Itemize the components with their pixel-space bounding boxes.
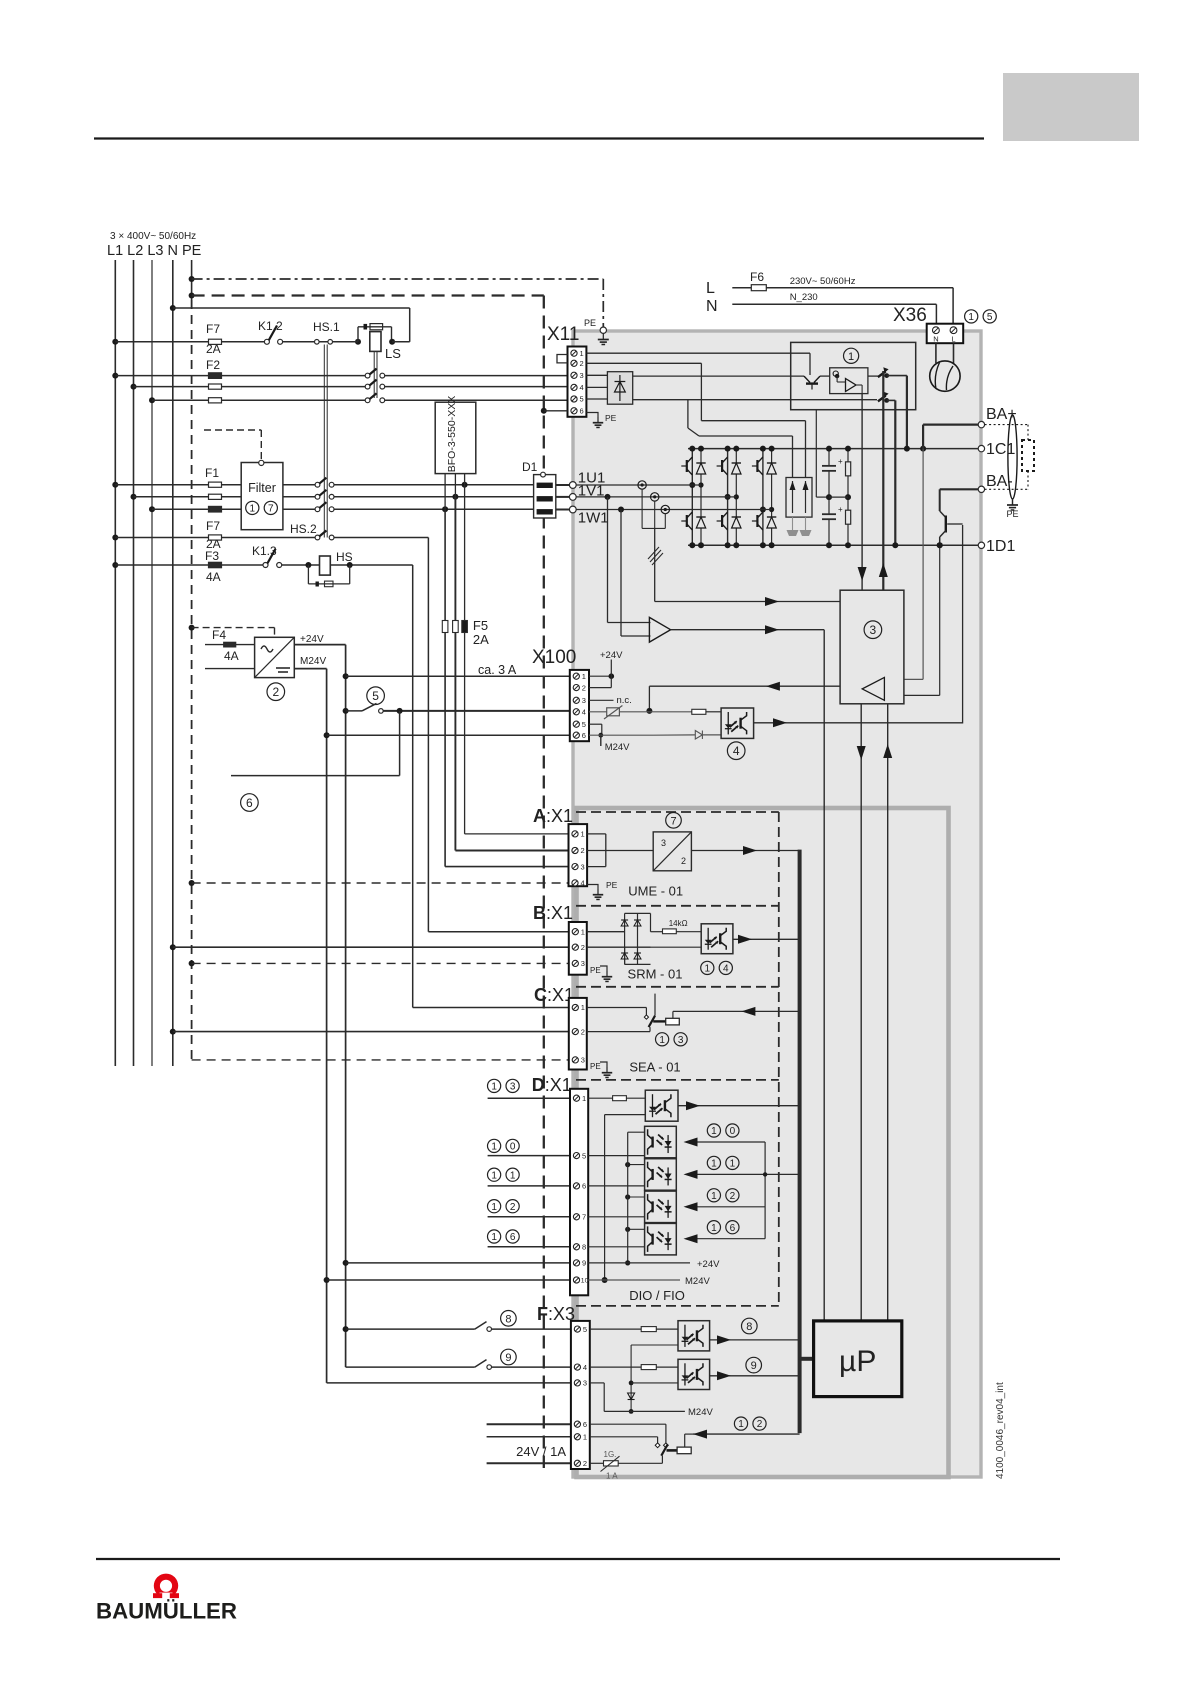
svg-text:0: 0 bbox=[730, 1126, 736, 1137]
HS element bbox=[320, 556, 331, 575]
svg-text:4A: 4A bbox=[206, 570, 221, 584]
svg-text:1: 1 bbox=[491, 1142, 497, 1153]
svg-text:1: 1 bbox=[491, 1232, 497, 1243]
power supply unit (1) box bbox=[791, 342, 916, 409]
svg-text:8: 8 bbox=[505, 1313, 511, 1325]
svg-text:5: 5 bbox=[580, 395, 584, 404]
svg-text:L: L bbox=[706, 280, 715, 297]
fuse bbox=[209, 506, 222, 512]
contactor control link bbox=[882, 371, 884, 590]
main contactor 3-pole switch bbox=[365, 373, 370, 378]
header gray box bbox=[1003, 73, 1139, 141]
svg-text:5: 5 bbox=[372, 689, 379, 703]
svg-text:2: 2 bbox=[757, 1419, 763, 1430]
SRM optocoupler bbox=[701, 924, 733, 954]
N line bbox=[172, 260, 174, 1066]
K1.2 fan supply row bbox=[112, 339, 118, 345]
Filter box bbox=[241, 463, 283, 530]
svg-text:2: 2 bbox=[582, 683, 586, 692]
svg-text:7: 7 bbox=[582, 1213, 586, 1222]
1D1 terminal bbox=[978, 542, 984, 548]
relay contact bottom right bbox=[590, 1423, 666, 1425]
svg-text:8: 8 bbox=[582, 1243, 586, 1252]
IGBT leg 1 bbox=[691, 449, 693, 546]
LS thermal bypass loop bbox=[357, 327, 359, 342]
svg-text:1 A: 1 A bbox=[606, 1472, 618, 1481]
PE branch to power unit PE bbox=[189, 276, 195, 282]
M24V row to X100 pin6 bbox=[324, 732, 330, 738]
module boundary dashed bbox=[576, 811, 779, 813]
row into B:X1 pin1 bbox=[428, 931, 568, 933]
svg-text:3: 3 bbox=[870, 623, 877, 637]
svg-text:PE: PE bbox=[590, 966, 601, 975]
svg-text:ca. 3 A: ca. 3 A bbox=[478, 663, 517, 677]
svg-text:X36: X36 bbox=[893, 305, 927, 326]
X11 pin6 PE bbox=[586, 413, 598, 418]
fuse row3 bbox=[209, 398, 222, 403]
branch to snubber bbox=[687, 400, 689, 428]
F:X3 bbox=[571, 1321, 590, 1469]
PE dashed to PSU bbox=[189, 625, 195, 631]
svg-text:7: 7 bbox=[268, 504, 274, 515]
svg-text:5: 5 bbox=[582, 720, 586, 729]
svg-text:9: 9 bbox=[582, 1259, 586, 1268]
gate feedback line with hash bbox=[654, 528, 656, 601]
fuse F6 bbox=[751, 285, 766, 291]
svg-text:n.c.: n.c. bbox=[617, 695, 632, 706]
svg-text:3: 3 bbox=[678, 1035, 684, 1046]
L2 line bbox=[133, 260, 135, 1066]
svg-text:4: 4 bbox=[723, 964, 729, 975]
DIO out resistor bbox=[588, 1097, 612, 1099]
fuse F3 4A bbox=[209, 562, 222, 567]
svg-text:F7: F7 bbox=[206, 519, 220, 533]
switch (8) row to F:X3 pin5 bbox=[343, 1326, 349, 1332]
svg-text:1: 1 bbox=[580, 349, 584, 358]
svg-text:230V~ 50/60Hz: 230V~ 50/60Hz bbox=[790, 276, 856, 287]
svg-text:8: 8 bbox=[746, 1321, 752, 1333]
X100 bbox=[570, 670, 589, 741]
svg-text:2: 2 bbox=[730, 1191, 736, 1202]
signal bus bbox=[798, 850, 802, 1434]
svg-text:M24V: M24V bbox=[300, 656, 326, 667]
PE dashed line bbox=[191, 300, 193, 1062]
X100 pin1 +24V row bbox=[343, 673, 349, 679]
svg-text:PE: PE bbox=[1006, 509, 1018, 519]
DC feedback to (3) bbox=[922, 449, 924, 680]
svg-text:1D1: 1D1 bbox=[986, 538, 1015, 555]
svg-text:HS: HS bbox=[336, 550, 353, 564]
C:X1 bbox=[569, 998, 587, 1070]
vertical to C:X1 pin1 bbox=[412, 565, 414, 1008]
svg-text:HS.1: HS.1 bbox=[313, 320, 340, 334]
svg-text:1: 1 bbox=[491, 1202, 497, 1213]
filter output rows bbox=[283, 484, 318, 486]
fuse row2 bbox=[209, 384, 222, 389]
PE line solid top bbox=[191, 260, 193, 300]
control block (3) bbox=[840, 590, 904, 704]
switch (9) row to F:X3 pin4 bbox=[501, 1349, 517, 1365]
IGBT leg 3 bbox=[762, 449, 764, 546]
svg-text:BFO-3-550-XXX: BFO-3-550-XXX bbox=[446, 396, 458, 472]
svg-text:Filter: Filter bbox=[248, 481, 276, 495]
X11 bbox=[568, 347, 587, 417]
svg-text:+: + bbox=[838, 457, 843, 466]
svg-text:1: 1 bbox=[730, 1159, 736, 1170]
fuse F7 2A bbox=[209, 535, 222, 540]
header rule bbox=[94, 137, 984, 139]
brake chopper transistor bbox=[939, 489, 941, 511]
fuse F7 2A bbox=[209, 339, 222, 344]
M24V row to D:X1 pin10 bbox=[324, 1277, 330, 1283]
current signal to uP bbox=[823, 630, 825, 1321]
vertical to B:X1 pin1 bbox=[427, 538, 429, 932]
PE dashed row to C:X1 pin3 bbox=[192, 1059, 569, 1061]
battery cable shield ellipse bbox=[1008, 415, 1017, 499]
svg-text:4: 4 bbox=[582, 708, 586, 717]
X11 pin1 row to power supply bbox=[586, 352, 810, 354]
comparator triangle bbox=[649, 617, 670, 642]
X11 pin6 to shield bbox=[541, 408, 547, 414]
X100 n.c. bbox=[589, 699, 614, 701]
filter-side 3-pole switch bbox=[315, 482, 320, 487]
+24V / M24V labels bbox=[588, 1262, 690, 1264]
svg-text:1: 1 bbox=[968, 312, 974, 323]
svg-text:F:X3: F:X3 bbox=[537, 1304, 575, 1324]
svg-text:1W1: 1W1 bbox=[578, 510, 609, 527]
svg-text:1: 1 bbox=[510, 1170, 516, 1181]
fuse F1 bbox=[209, 482, 222, 487]
SRM bridge rectifier bbox=[587, 931, 625, 933]
svg-text:6: 6 bbox=[730, 1223, 736, 1234]
svg-text:+: + bbox=[838, 505, 843, 514]
svg-text:M24V: M24V bbox=[685, 1276, 710, 1287]
svg-text:L: L bbox=[951, 335, 955, 344]
svg-text:N: N bbox=[933, 335, 938, 344]
half DC bus sense line bbox=[815, 410, 817, 497]
diode to opto bbox=[695, 731, 702, 740]
svg-text:4A: 4A bbox=[224, 649, 239, 663]
microprocessor bbox=[814, 1321, 902, 1397]
svg-text:D1: D1 bbox=[522, 460, 538, 474]
svg-text:0: 0 bbox=[510, 1142, 516, 1153]
svg-text:PE: PE bbox=[584, 318, 596, 328]
svg-text:1: 1 bbox=[250, 504, 256, 515]
svg-text:1: 1 bbox=[848, 351, 854, 363]
opto common bus bbox=[764, 1142, 766, 1239]
row into C:X1 pin1 bbox=[413, 1007, 569, 1009]
svg-text:1: 1 bbox=[711, 1223, 717, 1234]
svg-text:L1 L2 L3 N PE: L1 L2 L3 N PE bbox=[107, 243, 202, 259]
svg-text:SRM - 01: SRM - 01 bbox=[628, 967, 683, 982]
svg-text:PE: PE bbox=[590, 1062, 601, 1071]
rows into A:X1 bbox=[445, 866, 568, 868]
DC+ rail / 1C1 bbox=[688, 448, 979, 450]
L1 line bbox=[114, 260, 116, 1066]
customer line (6) bbox=[399, 711, 401, 776]
svg-text:1: 1 bbox=[711, 1126, 717, 1137]
DIO output opto bbox=[645, 1090, 678, 1121]
svg-text:1C1: 1C1 bbox=[986, 441, 1015, 458]
svg-text:D:X1: D:X1 bbox=[532, 1075, 572, 1095]
fuse F4 4A bbox=[224, 642, 236, 647]
PE dashed row to B:X1 pin3 bbox=[189, 960, 195, 966]
input opto 2 bbox=[645, 1159, 677, 1191]
svg-text:1: 1 bbox=[581, 1003, 585, 1012]
power supply unit (2) bbox=[255, 637, 295, 677]
DC- feed bbox=[894, 400, 896, 545]
svg-text:UME - 01: UME - 01 bbox=[628, 884, 683, 899]
svg-text:1: 1 bbox=[491, 1170, 497, 1181]
D:X1 bbox=[570, 1089, 588, 1296]
A:X1 bracket bbox=[587, 833, 606, 835]
svg-text:1G.: 1G. bbox=[604, 1450, 617, 1459]
svg-text:BAUMÜLLER: BAUMÜLLER bbox=[96, 1599, 237, 1624]
N row to B:X1 pin2 bbox=[170, 944, 176, 950]
svg-text:X11: X11 bbox=[547, 324, 579, 345]
DC link capacitors bbox=[828, 449, 830, 466]
footer rule bbox=[96, 1558, 1060, 1560]
opamp output down to (3) bbox=[861, 394, 863, 591]
(1)(2) control arrow bbox=[693, 1433, 800, 1435]
svg-text:+24V: +24V bbox=[600, 650, 623, 661]
optocoupler (4) bbox=[721, 708, 754, 738]
svg-text:3: 3 bbox=[581, 862, 585, 871]
1C1 terminal bbox=[978, 445, 984, 451]
PE dashed row to A:X1 pin4 bbox=[189, 880, 195, 886]
M24V row to F:X3 pin3 bbox=[327, 1382, 571, 1384]
rectifier output rows bbox=[633, 375, 804, 377]
svg-text:6: 6 bbox=[582, 1182, 586, 1191]
svg-text:SEA - 01: SEA - 01 bbox=[629, 1060, 680, 1075]
1G fuse bbox=[590, 1462, 604, 1464]
svg-text:7: 7 bbox=[670, 815, 676, 827]
HS bypass loop below bbox=[307, 565, 309, 584]
relay contact 2 bbox=[878, 396, 886, 402]
svg-text:2: 2 bbox=[580, 359, 584, 368]
svg-text:1: 1 bbox=[711, 1191, 717, 1202]
svg-text:3: 3 bbox=[510, 1082, 516, 1093]
X100 pin5-6 bracket bbox=[589, 723, 602, 725]
D:X1 input rows bbox=[488, 1079, 501, 1092]
release resistor bbox=[649, 711, 691, 713]
switch (5) row to X100 pin4 bbox=[343, 708, 349, 714]
svg-text:3: 3 bbox=[580, 371, 584, 380]
svg-text:F5: F5 bbox=[473, 618, 488, 633]
snubber block bbox=[786, 478, 812, 518]
line filter BFO-3-550-XXX bbox=[444, 474, 446, 510]
svg-text:M24V: M24V bbox=[688, 1407, 713, 1418]
svg-text:F6: F6 bbox=[750, 270, 764, 284]
input opto 3 bbox=[645, 1191, 677, 1223]
opto commons to M24V bbox=[631, 1344, 678, 1346]
DC+ feed bbox=[906, 376, 908, 449]
svg-text:2: 2 bbox=[581, 846, 585, 855]
fuse F2 bbox=[209, 373, 222, 379]
IGBT leg 2 bbox=[727, 449, 729, 546]
A:X1 bbox=[569, 824, 588, 886]
svg-text:2: 2 bbox=[272, 685, 279, 699]
svg-text:1: 1 bbox=[582, 1094, 586, 1103]
relay contact 1 bbox=[868, 375, 878, 377]
svg-text:2: 2 bbox=[581, 1027, 585, 1036]
svg-text:5: 5 bbox=[582, 1151, 586, 1160]
svg-text:6: 6 bbox=[582, 731, 586, 740]
svg-text:PE: PE bbox=[606, 880, 618, 890]
svg-text:6: 6 bbox=[510, 1232, 516, 1243]
svg-text:1: 1 bbox=[582, 672, 586, 681]
svg-text:2: 2 bbox=[510, 1202, 516, 1213]
B:X1 PE bbox=[586, 964, 588, 966]
HS.1-HS.2 mechanical link bbox=[323, 345, 325, 538]
svg-text:PE: PE bbox=[605, 413, 617, 423]
svg-text:4: 4 bbox=[733, 744, 740, 758]
svg-text:3: 3 bbox=[661, 838, 666, 848]
fuse bbox=[209, 494, 222, 499]
current sensors bbox=[638, 481, 646, 489]
LS element bbox=[370, 332, 381, 352]
controller inner gray box bbox=[577, 808, 949, 1477]
SEA switch bbox=[587, 1007, 647, 1009]
opto 8 bbox=[590, 1328, 641, 1330]
phase feedback to comparator bbox=[605, 494, 611, 500]
svg-text:3: 3 bbox=[583, 1379, 587, 1388]
(3) to uP lines bbox=[860, 704, 862, 1321]
svg-text:1: 1 bbox=[581, 830, 585, 839]
svg-text:6: 6 bbox=[246, 796, 253, 810]
svg-text:4: 4 bbox=[583, 1363, 587, 1372]
svg-text:1: 1 bbox=[583, 1433, 587, 1442]
svg-text:6: 6 bbox=[583, 1420, 587, 1429]
F:X3 pin6,1,2 stubs bbox=[487, 1423, 571, 1425]
svg-text:2A: 2A bbox=[206, 342, 221, 356]
gate line from opto (4) bbox=[962, 525, 964, 724]
X100 pin4 varistor bbox=[607, 708, 620, 716]
svg-text:4100_0046_rev04_int: 4100_0046_rev04_int bbox=[995, 1382, 1006, 1479]
pin3 to M24V bbox=[590, 1382, 604, 1384]
svg-text:1: 1 bbox=[738, 1419, 744, 1430]
opto (9) bbox=[678, 1359, 710, 1389]
svg-text:µP: µP bbox=[839, 1345, 876, 1378]
svg-text:9: 9 bbox=[505, 1352, 511, 1364]
svg-text:24V / 1A: 24V / 1A bbox=[516, 1444, 566, 1459]
release line from X100 pin4 bbox=[649, 685, 840, 687]
svg-text:K1.2: K1.2 bbox=[258, 319, 283, 333]
Baumueller logo omega bbox=[154, 1574, 178, 1598]
pass transistor bbox=[809, 353, 811, 375]
svg-text:5: 5 bbox=[583, 1325, 587, 1334]
F5 fused lines to A:X1 bbox=[444, 509, 446, 866]
svg-text:4: 4 bbox=[580, 383, 584, 392]
svg-text:F1: F1 bbox=[205, 466, 219, 480]
svg-text:3: 3 bbox=[582, 696, 586, 705]
svg-text:2A: 2A bbox=[473, 632, 489, 647]
N feed loop for fan contactor bbox=[170, 305, 176, 311]
U/f converter bbox=[666, 813, 682, 829]
svg-text:9: 9 bbox=[751, 1360, 757, 1372]
svg-text:F2: F2 bbox=[206, 358, 220, 372]
A:X1 PE bbox=[587, 885, 598, 890]
X11 pins1-2 bracket bbox=[557, 355, 568, 363]
svg-text:M24V: M24V bbox=[605, 742, 630, 753]
svg-text:HS.2: HS.2 bbox=[290, 522, 317, 536]
fan bbox=[935, 343, 937, 363]
aux rectifier bbox=[607, 372, 632, 405]
svg-text:14kΩ: 14kΩ bbox=[669, 919, 688, 928]
svg-text:4: 4 bbox=[581, 879, 585, 888]
input opto 4 bbox=[645, 1223, 677, 1255]
BA- terminal bbox=[940, 488, 979, 490]
+24V row to D:X1 pin9 bbox=[343, 1260, 349, 1266]
BA+ terminal bbox=[920, 446, 926, 452]
svg-text:2: 2 bbox=[681, 856, 686, 866]
svg-text:1: 1 bbox=[581, 927, 585, 936]
svg-text:F3: F3 bbox=[205, 549, 219, 563]
svg-text:F7: F7 bbox=[206, 322, 220, 336]
power unit gray enclosure bbox=[573, 331, 981, 1477]
svg-text:X100: X100 bbox=[532, 647, 576, 668]
svg-text:N_230: N_230 bbox=[790, 292, 818, 303]
L3 line bbox=[151, 260, 153, 1066]
svg-text:1: 1 bbox=[659, 1035, 665, 1046]
svg-text:LS: LS bbox=[385, 346, 401, 361]
svg-text:+24V: +24V bbox=[300, 634, 324, 645]
svg-text:6: 6 bbox=[580, 407, 584, 416]
svg-text:2: 2 bbox=[583, 1459, 587, 1468]
N row to C:X1 pin2 bbox=[170, 1029, 176, 1035]
svg-text:3: 3 bbox=[581, 1056, 585, 1065]
svg-text:5: 5 bbox=[987, 312, 993, 323]
svg-text:1: 1 bbox=[711, 1159, 717, 1170]
svg-text:N: N bbox=[706, 298, 718, 315]
enclosure shield dashed line bbox=[189, 293, 195, 299]
svg-text:A:X1: A:X1 bbox=[533, 806, 573, 826]
svg-text:1: 1 bbox=[491, 1082, 497, 1093]
svg-text:1: 1 bbox=[705, 964, 711, 975]
svg-text:DIO / FIO: DIO / FIO bbox=[629, 1288, 685, 1303]
svg-text:10: 10 bbox=[581, 1278, 589, 1285]
svg-text:2: 2 bbox=[581, 943, 585, 952]
svg-text:3 × 400V~ 50/60Hz: 3 × 400V~ 50/60Hz bbox=[110, 231, 196, 242]
svg-text:+24V: +24V bbox=[697, 1259, 720, 1270]
svg-text:F4: F4 bbox=[212, 628, 226, 642]
svg-text:B:X1: B:X1 bbox=[533, 903, 573, 923]
X11 pin2 row to snubber bbox=[586, 362, 701, 364]
regulator opamp box bbox=[830, 368, 868, 394]
opto 9 bbox=[590, 1366, 641, 1368]
opto (8) bbox=[678, 1321, 710, 1351]
input opto 1 bbox=[645, 1126, 677, 1158]
svg-text:3: 3 bbox=[581, 959, 585, 968]
B:X1 bbox=[569, 922, 587, 975]
DC- rail / 1D1 bbox=[688, 544, 979, 546]
